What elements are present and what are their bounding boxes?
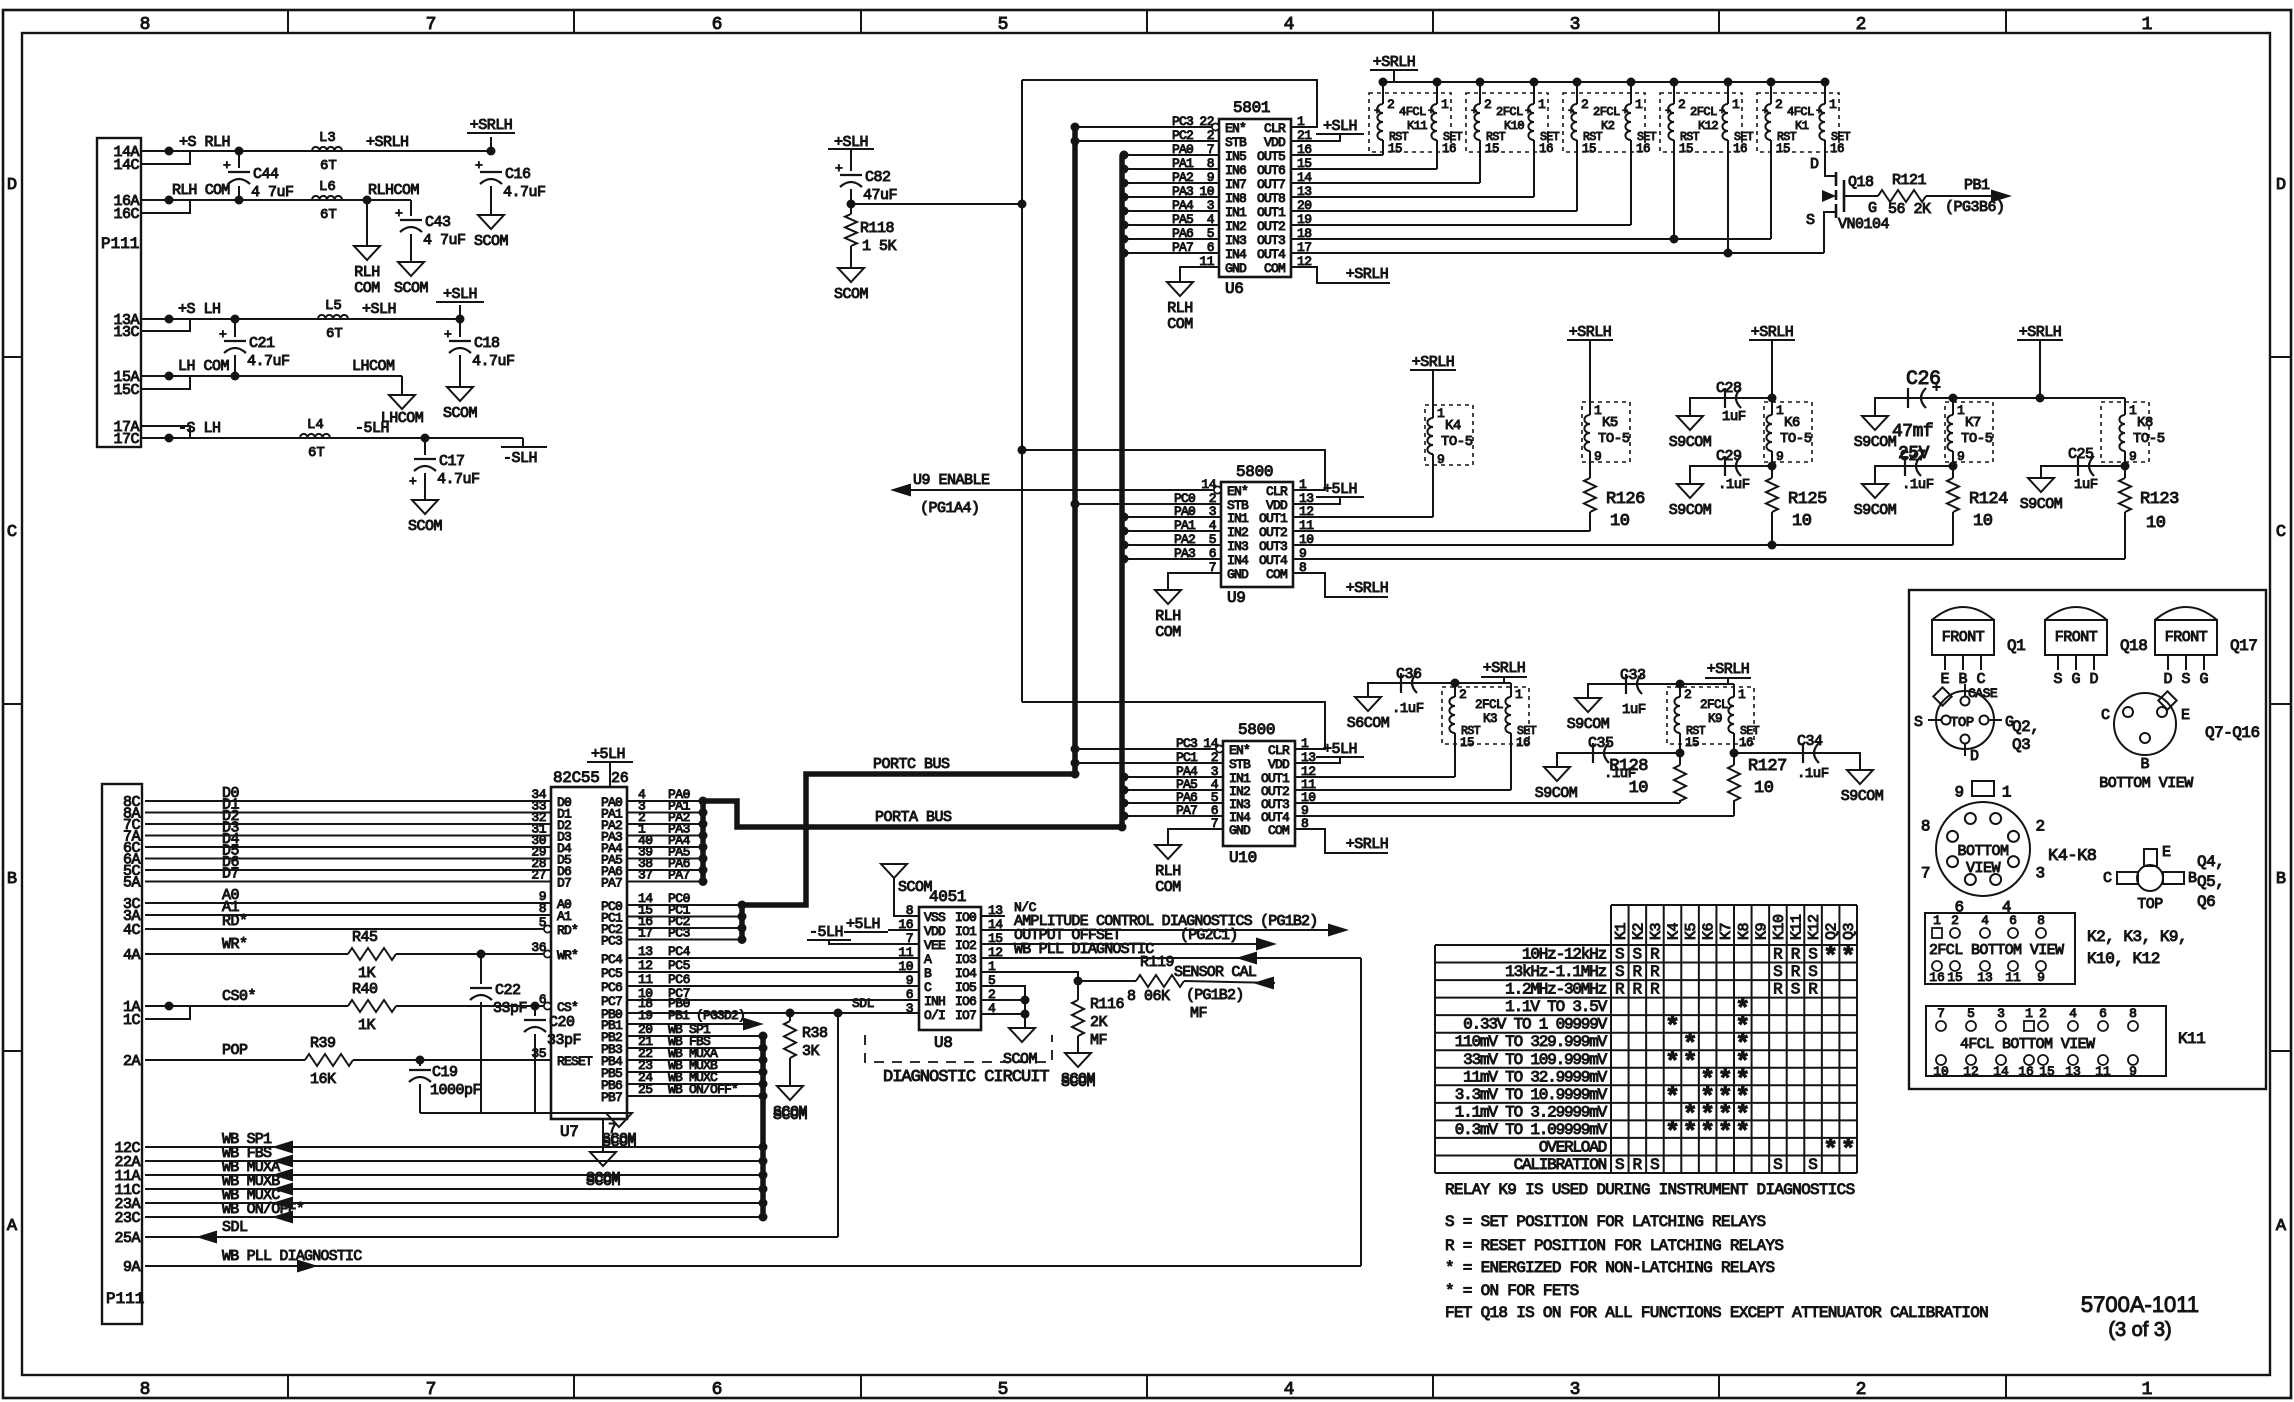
- svg-text:D7: D7: [222, 866, 239, 883]
- svg-text:Q7-Q16: Q7-Q16: [2205, 724, 2260, 742]
- svg-text:SCOM: SCOM: [1061, 1074, 1096, 1091]
- svg-text:PC5: PC5: [668, 958, 690, 973]
- svg-text:7: 7: [1937, 1006, 1945, 1021]
- svg-text:4: 4: [1981, 913, 1989, 928]
- svg-text:10: 10: [1933, 1064, 1949, 1079]
- svg-text:WB ON/OFF*: WB ON/OFF*: [668, 1082, 738, 1097]
- svg-text:-5LH: -5LH: [355, 420, 389, 437]
- svg-text:9A: 9A: [123, 1259, 141, 1276]
- svg-text:0.33V TO 1 09999V: 0.33V TO 1 09999V: [1463, 1016, 1607, 1034]
- svg-text:+: +: [1622, 107, 1628, 118]
- svg-text:PB1 (PG3D2): PB1 (PG3D2): [668, 1008, 745, 1023]
- svg-text:PA7: PA7: [601, 876, 622, 891]
- svg-text:4.7uF: 4.7uF: [472, 353, 515, 370]
- svg-text:S: S: [1806, 212, 1815, 229]
- svg-text:E: E: [1940, 671, 1949, 688]
- svg-text:SCOM: SCOM: [773, 1107, 808, 1124]
- svg-text:U7: U7: [560, 1123, 579, 1141]
- svg-text:R118: R118: [860, 220, 895, 237]
- svg-text:37: 37: [638, 868, 653, 883]
- svg-text:K1: K1: [1795, 119, 1809, 133]
- svg-text:R45: R45: [352, 929, 378, 946]
- svg-text:+: +: [1665, 107, 1671, 118]
- svg-text:FRONT: FRONT: [2165, 629, 2208, 646]
- svg-text:9: 9: [1957, 449, 1965, 464]
- svg-text:47mf: 47mf: [1892, 422, 1933, 442]
- svg-text:C29: C29: [1716, 448, 1742, 465]
- svg-text:12: 12: [1963, 1064, 1979, 1079]
- svg-text:IN5: IN5: [1225, 149, 1246, 164]
- svg-text:+SLH: +SLH: [1323, 118, 1357, 135]
- svg-text:C28: C28: [1716, 380, 1742, 397]
- svg-text:L3: L3: [319, 130, 336, 146]
- svg-text:CALIBRATION: CALIBRATION: [1514, 1156, 1607, 1174]
- svg-text:K2: K2: [1601, 119, 1615, 133]
- svg-text:SCOM: SCOM: [408, 518, 443, 535]
- svg-text:*: *: [1683, 1118, 1698, 1147]
- svg-text:IN3: IN3: [1227, 539, 1248, 554]
- svg-text:16C: 16C: [113, 206, 139, 223]
- svg-text:2: 2: [1684, 687, 1692, 702]
- svg-text:R: R: [1773, 981, 1783, 999]
- svg-text:17: 17: [638, 926, 653, 941]
- svg-text:IN1: IN1: [1225, 205, 1247, 220]
- svg-text:IO2: IO2: [955, 938, 976, 953]
- svg-text:8: 8: [539, 901, 546, 916]
- svg-text:*: *: [1823, 1135, 1838, 1164]
- svg-text:4C: 4C: [123, 922, 141, 939]
- svg-text:8: 8: [1921, 817, 1931, 835]
- svg-text:4FCL: 4FCL: [1399, 105, 1426, 119]
- svg-text:RLH: RLH: [1155, 863, 1181, 880]
- svg-text:OUT3: OUT3: [1257, 233, 1285, 248]
- svg-text:2FCL: 2FCL: [1700, 698, 1728, 712]
- svg-text:BOTTOM: BOTTOM: [1957, 843, 2009, 860]
- svg-text:7: 7: [426, 15, 437, 35]
- svg-text:2FCL: 2FCL: [1690, 105, 1717, 119]
- svg-text:VIEW: VIEW: [1966, 860, 2001, 877]
- svg-text:82C55: 82C55: [553, 769, 600, 787]
- svg-text:1: 1: [2142, 15, 2153, 35]
- svg-text:S6COM: S6COM: [1347, 715, 1390, 732]
- svg-text:*: *: [1841, 943, 1856, 972]
- svg-text:1: 1: [1776, 403, 1784, 418]
- svg-text:K5: K5: [1602, 415, 1618, 431]
- svg-text:RLHCOM: RLHCOM: [368, 182, 420, 199]
- svg-text:15: 15: [2039, 1064, 2055, 1079]
- svg-text:U10: U10: [1229, 849, 1257, 867]
- svg-text:PB7: PB7: [601, 1090, 622, 1105]
- svg-text:+: +: [1816, 107, 1822, 118]
- svg-text:*: *: [1735, 1118, 1750, 1147]
- svg-text:16: 16: [1516, 736, 1530, 750]
- svg-text:1: 1: [1538, 97, 1546, 112]
- svg-text:+: +: [409, 474, 417, 489]
- svg-text:K8: K8: [2137, 415, 2153, 431]
- svg-text:IO1: IO1: [955, 924, 977, 939]
- svg-text:B: B: [2140, 756, 2149, 773]
- svg-text:1 5K: 1 5K: [862, 238, 897, 255]
- svg-text:1: 1: [1732, 97, 1740, 112]
- svg-text:RLH: RLH: [1167, 300, 1193, 317]
- svg-text:C21: C21: [249, 335, 275, 352]
- svg-text:R38: R38: [802, 1025, 828, 1042]
- svg-text:IO5: IO5: [955, 980, 976, 995]
- svg-text:1: 1: [1515, 687, 1523, 702]
- svg-text:+: +: [1374, 107, 1380, 118]
- svg-text:13: 13: [2065, 1064, 2081, 1079]
- svg-text:PORTA BUS: PORTA BUS: [875, 809, 952, 826]
- svg-text:A: A: [2276, 1217, 2287, 1236]
- svg-text:25: 25: [638, 1082, 653, 1097]
- svg-text:MF: MF: [1090, 1032, 1107, 1049]
- svg-text:O/I: O/I: [924, 1008, 945, 1023]
- svg-text:Q6: Q6: [2197, 893, 2215, 911]
- svg-text:+SLH: +SLH: [362, 301, 396, 318]
- svg-text:PC3: PC3: [601, 934, 622, 949]
- svg-text:D7: D7: [557, 876, 571, 891]
- svg-text:OUT7: OUT7: [1257, 177, 1285, 192]
- svg-text:(PG1A4): (PG1A4): [920, 500, 980, 517]
- svg-text:C27: C27: [1900, 448, 1926, 465]
- svg-text:K4: K4: [1445, 418, 1461, 434]
- svg-text:EN*: EN*: [1227, 484, 1248, 499]
- svg-text:-5LH: -5LH: [809, 924, 843, 941]
- svg-text:(3 of 3): (3 of 3): [2108, 1319, 2171, 1341]
- svg-text:K4-K8: K4-K8: [2048, 847, 2097, 866]
- svg-text:11: 11: [2095, 1064, 2111, 1079]
- svg-text:8: 8: [140, 1380, 151, 1400]
- svg-text:C35: C35: [1588, 735, 1614, 752]
- svg-text:10: 10: [1792, 512, 1812, 531]
- svg-text:OUT8: OUT8: [1257, 191, 1285, 206]
- svg-text:1K: 1K: [358, 965, 376, 982]
- svg-text:S = SET POSITION FOR LATCHING: S = SET POSITION FOR LATCHING RELAYS: [1445, 1213, 1766, 1231]
- svg-text:C22: C22: [495, 982, 521, 999]
- svg-text:12: 12: [638, 958, 653, 973]
- svg-text:S9COM: S9COM: [1854, 502, 1897, 519]
- svg-text:G: G: [2199, 671, 2208, 688]
- svg-text:*: *: [1841, 1135, 1856, 1164]
- svg-text:K3: K3: [1648, 922, 1665, 940]
- svg-text:-SLH: -SLH: [503, 450, 537, 467]
- svg-text:15: 15: [1388, 142, 1402, 156]
- svg-text:C19: C19: [432, 1064, 458, 1081]
- svg-text:56 2K: 56 2K: [1888, 201, 1931, 218]
- svg-text:6: 6: [712, 15, 723, 35]
- svg-text:IN7: IN7: [1225, 177, 1246, 192]
- svg-text:+: +: [475, 158, 483, 173]
- svg-text:10Hz-12kHz: 10Hz-12kHz: [1522, 946, 1607, 964]
- svg-text:16: 16: [1733, 142, 1747, 156]
- svg-text:S: S: [1633, 946, 1643, 964]
- svg-text:+5LH: +5LH: [1323, 741, 1357, 758]
- svg-text:S: S: [1773, 963, 1783, 981]
- svg-text:TOP: TOP: [2137, 896, 2163, 913]
- svg-text:E: E: [2162, 844, 2171, 861]
- svg-text:*: *: [1665, 1013, 1680, 1042]
- svg-text:Q3: Q3: [1841, 922, 1858, 940]
- svg-text:36: 36: [531, 940, 546, 955]
- svg-text:1: 1: [1738, 687, 1746, 702]
- svg-text:R: R: [1808, 981, 1818, 999]
- svg-text:*: *: [1823, 943, 1838, 972]
- svg-text:WR*: WR*: [557, 948, 578, 963]
- svg-text:1.1mV TO 3.29999mV: 1.1mV TO 3.29999mV: [1455, 1103, 1608, 1121]
- svg-text:OUT4: OUT4: [1259, 553, 1288, 568]
- svg-text:+SRLH: +SRLH: [2019, 324, 2062, 341]
- svg-text:EN*: EN*: [1225, 121, 1246, 136]
- svg-text:C17: C17: [439, 453, 465, 470]
- svg-text:+: +: [1762, 107, 1768, 118]
- svg-text:K6: K6: [1784, 415, 1800, 431]
- svg-text:R = RESET POSITION FOR LATCHIN: R = RESET POSITION FOR LATCHING RELAYS: [1445, 1237, 1783, 1255]
- svg-text:R128: R128: [1609, 757, 1648, 776]
- svg-text:S: S: [1615, 946, 1625, 964]
- svg-text:OVERLOAD: OVERLOAD: [1539, 1138, 1607, 1156]
- svg-text:K2, K3, K9,: K2, K3, K9,: [2087, 928, 2187, 946]
- svg-text:6: 6: [539, 992, 546, 1007]
- svg-text:R116: R116: [1090, 996, 1125, 1013]
- svg-text:S: S: [1808, 946, 1818, 964]
- svg-text:4.7uF: 4.7uF: [437, 471, 480, 488]
- svg-text:A: A: [7, 1217, 18, 1236]
- svg-text:3: 3: [1997, 1006, 2005, 1021]
- svg-text:+SRLH: +SRLH: [1569, 324, 1612, 341]
- svg-text:K1: K1: [1613, 922, 1630, 940]
- svg-text:C25: C25: [2068, 446, 2094, 463]
- svg-text:9: 9: [1437, 452, 1445, 467]
- svg-text:+SRLH: +SRLH: [1707, 661, 1750, 678]
- svg-text:U9: U9: [1227, 589, 1246, 607]
- svg-text:9: 9: [1776, 449, 1784, 464]
- svg-text:R119: R119: [1140, 954, 1174, 971]
- svg-text:R: R: [1633, 1156, 1643, 1174]
- svg-text:1000pF: 1000pF: [430, 1082, 481, 1099]
- svg-text:5800: 5800: [1236, 463, 1273, 481]
- svg-text:(PG2C1): (PG2C1): [1180, 927, 1237, 944]
- svg-text:3.3mV TO 10.9999mV: 3.3mV TO 10.9999mV: [1455, 1086, 1608, 1104]
- svg-text:BOTTOM VIEW: BOTTOM VIEW: [2099, 775, 2193, 792]
- svg-text:1: 1: [2129, 403, 2137, 418]
- svg-text:+S LH: +S LH: [178, 301, 221, 318]
- svg-text:15C: 15C: [113, 382, 139, 399]
- svg-text:B: B: [1958, 671, 1967, 688]
- svg-text:2: 2: [1581, 97, 1589, 112]
- svg-text:K12: K12: [1698, 119, 1718, 133]
- svg-text:K8: K8: [1736, 922, 1753, 940]
- svg-text:D: D: [2089, 671, 2098, 688]
- svg-text:K3: K3: [1483, 712, 1497, 726]
- svg-text:SENSOR CAL: SENSOR CAL: [1174, 964, 1257, 981]
- svg-text:SCOM: SCOM: [834, 286, 869, 303]
- svg-text:U8: U8: [934, 1034, 953, 1052]
- svg-text:S: S: [1914, 714, 1923, 731]
- svg-text:26: 26: [611, 770, 629, 787]
- svg-text:OUT5: OUT5: [1257, 149, 1285, 164]
- svg-text:OUT1: OUT1: [1259, 511, 1288, 526]
- svg-text:3: 3: [906, 1001, 913, 1016]
- svg-text:.1uF: .1uF: [1392, 701, 1424, 717]
- svg-text:K10: K10: [1504, 119, 1524, 133]
- svg-text:1uF: 1uF: [1722, 409, 1746, 425]
- svg-text:16K: 16K: [310, 1071, 336, 1088]
- svg-text:10: 10: [1610, 512, 1630, 531]
- svg-text:B: B: [7, 870, 17, 889]
- svg-text:IN3: IN3: [1225, 233, 1246, 248]
- svg-text:S: S: [1808, 1156, 1818, 1174]
- svg-text:K5: K5: [1683, 922, 1700, 940]
- svg-text:FRONT: FRONT: [1942, 629, 1985, 646]
- svg-text:2: 2: [1856, 1380, 1867, 1400]
- svg-text:2: 2: [2035, 817, 2045, 835]
- svg-text:*: *: [1718, 1118, 1733, 1147]
- svg-text:1: 1: [1933, 913, 1941, 928]
- svg-text:PC3: PC3: [668, 926, 690, 941]
- svg-text:S: S: [2181, 671, 2190, 688]
- svg-text:6T: 6T: [320, 207, 337, 223]
- svg-text:17C: 17C: [113, 431, 139, 448]
- svg-text:1.2MHz-30MHz: 1.2MHz-30MHz: [1505, 981, 1606, 999]
- svg-text:CLR: CLR: [1268, 743, 1290, 758]
- svg-text:1: 1: [2025, 1006, 2033, 1021]
- svg-text:33pF: 33pF: [493, 1000, 527, 1017]
- svg-text:6T: 6T: [308, 445, 325, 461]
- svg-text:IN6: IN6: [1225, 163, 1246, 178]
- svg-text:+: +: [395, 206, 403, 221]
- svg-text:+5LH: +5LH: [1323, 481, 1357, 498]
- svg-text:*: *: [1665, 1118, 1680, 1147]
- svg-text:S9COM: S9COM: [1669, 502, 1712, 519]
- svg-text:6: 6: [2099, 1006, 2107, 1021]
- svg-text:1uF: 1uF: [1622, 702, 1646, 718]
- svg-text:R: R: [1791, 946, 1801, 964]
- svg-text:+: +: [1428, 107, 1434, 118]
- svg-text:11: 11: [638, 972, 653, 987]
- svg-text:R39: R39: [310, 1035, 336, 1052]
- svg-text:SCOM: SCOM: [443, 405, 478, 422]
- svg-text:11: 11: [898, 945, 913, 960]
- svg-text:D: D: [2276, 176, 2286, 195]
- svg-text:+5LH: +5LH: [846, 916, 880, 933]
- svg-text:C: C: [2103, 870, 2112, 887]
- svg-text:K11: K11: [2178, 1030, 2205, 1048]
- svg-text:GND: GND: [1225, 261, 1247, 276]
- svg-text:S: S: [1808, 963, 1818, 981]
- svg-text:15: 15: [1947, 970, 1963, 985]
- svg-text:+SLH: +SLH: [443, 286, 477, 303]
- svg-text:RLH: RLH: [354, 264, 380, 281]
- svg-text:PC4: PC4: [668, 944, 691, 959]
- svg-text:IN2: IN2: [1227, 525, 1248, 540]
- svg-text:4: 4: [2069, 1006, 2077, 1021]
- svg-text:9: 9: [2037, 970, 2045, 985]
- svg-text:LH COM: LH COM: [178, 358, 230, 375]
- svg-text:16: 16: [2018, 1064, 2034, 1079]
- svg-text:CLR: CLR: [1266, 484, 1288, 499]
- svg-text:1: 1: [1441, 97, 1449, 112]
- svg-text:WB PLL DIAGNOSTIC: WB PLL DIAGNOSTIC: [222, 1248, 362, 1265]
- svg-text:RELAY K9 IS USED DURING INSTRU: RELAY K9 IS USED DURING INSTRUMENT DIAGN…: [1445, 1181, 1855, 1199]
- svg-text:R126: R126: [1606, 490, 1645, 509]
- svg-text:2FCL: 2FCL: [1496, 105, 1523, 119]
- svg-text:1: 1: [1635, 97, 1643, 112]
- svg-text:R124: R124: [1969, 490, 2008, 509]
- svg-text:2: 2: [1484, 97, 1492, 112]
- svg-text:RESET: RESET: [557, 1054, 593, 1069]
- svg-text:WB PLL DIAGNOSTIC: WB PLL DIAGNOSTIC: [1014, 941, 1154, 958]
- svg-text:23C: 23C: [114, 1210, 140, 1227]
- svg-text:WR*: WR*: [222, 936, 248, 953]
- svg-text:SCOM: SCOM: [898, 879, 933, 896]
- svg-text:OUT3: OUT3: [1259, 539, 1287, 554]
- svg-text:D: D: [1810, 156, 1819, 173]
- svg-text:COM: COM: [1155, 624, 1181, 641]
- svg-text:16: 16: [1442, 142, 1456, 156]
- svg-text:*: *: [1683, 1048, 1698, 1077]
- svg-text:35: 35: [531, 1046, 546, 1061]
- svg-text:TO-5: TO-5: [2133, 431, 2165, 447]
- svg-text:S9COM: S9COM: [1535, 785, 1578, 802]
- svg-text:S: S: [1791, 981, 1801, 999]
- svg-text:5: 5: [998, 1380, 1009, 1400]
- svg-text:IO0: IO0: [955, 910, 976, 925]
- svg-text:15: 15: [1776, 142, 1790, 156]
- svg-text:1: 1: [2142, 1380, 2153, 1400]
- svg-text:R125: R125: [1788, 490, 1827, 509]
- svg-text:FRONT: FRONT: [2055, 629, 2098, 646]
- svg-text:D: D: [1970, 748, 1979, 765]
- svg-text:K12: K12: [1806, 914, 1823, 940]
- svg-text:9: 9: [2129, 1064, 2137, 1079]
- svg-text:Q18: Q18: [2120, 637, 2147, 655]
- svg-text:PC6: PC6: [668, 972, 690, 987]
- svg-text:5: 5: [1967, 1006, 1975, 1021]
- svg-text:K7: K7: [1965, 415, 1981, 431]
- svg-text:*: *: [1665, 1048, 1680, 1077]
- svg-text:K11: K11: [1789, 914, 1806, 940]
- svg-text:5801: 5801: [1233, 99, 1270, 117]
- svg-text:P111: P111: [101, 235, 139, 253]
- svg-text:Q2: Q2: [1824, 923, 1841, 940]
- svg-text:GND: GND: [1229, 823, 1251, 838]
- svg-text:R: R: [1633, 963, 1643, 981]
- svg-text:25A: 25A: [114, 1230, 140, 1247]
- svg-text:1: 1: [1829, 97, 1837, 112]
- svg-text:G: G: [2071, 671, 2080, 688]
- svg-text:VDD: VDD: [924, 924, 946, 939]
- svg-text:2FCL: 2FCL: [1475, 698, 1503, 712]
- svg-text:K4: K4: [1666, 922, 1683, 940]
- svg-text:S9COM: S9COM: [1669, 434, 1712, 451]
- svg-text:MF: MF: [1190, 1005, 1207, 1022]
- svg-text:C34: C34: [1797, 733, 1823, 750]
- svg-text:9: 9: [1954, 784, 1964, 802]
- svg-text:VSS: VSS: [924, 910, 946, 925]
- svg-text:R: R: [1650, 963, 1660, 981]
- svg-text:15: 15: [1485, 142, 1499, 156]
- svg-text:IN8: IN8: [1225, 191, 1246, 206]
- svg-text:R: R: [1615, 981, 1625, 999]
- svg-text:L6: L6: [319, 179, 336, 195]
- svg-text:+SRLH: +SRLH: [1373, 54, 1416, 71]
- svg-text:PORTC BUS: PORTC BUS: [873, 756, 950, 773]
- svg-text:D: D: [2163, 671, 2172, 688]
- svg-text:VDD: VDD: [1264, 135, 1286, 150]
- svg-text:3: 3: [1570, 1380, 1581, 1400]
- svg-text:2: 2: [1775, 97, 1783, 112]
- svg-text:K6: K6: [1701, 922, 1718, 940]
